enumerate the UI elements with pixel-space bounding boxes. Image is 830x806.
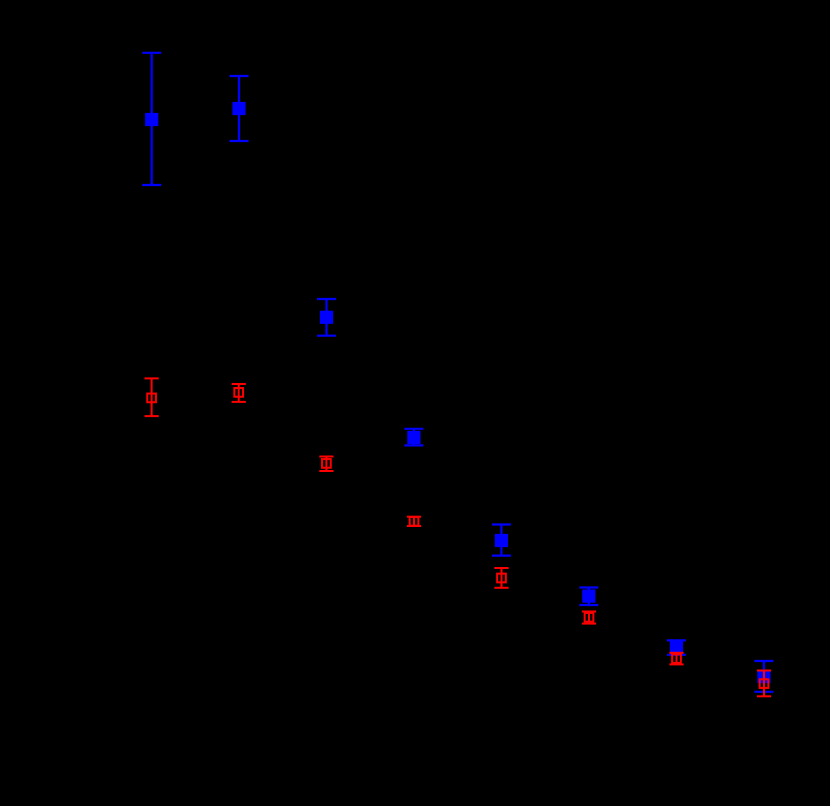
blue series point 6 (filled square marker + error bar) xyxy=(579,588,598,606)
red series point 6 (open square marker + error bar) xyxy=(582,612,596,624)
red series point 7 (open square marker + error bar) xyxy=(669,653,683,665)
blue series point 2 (filled square marker + error bar) xyxy=(230,76,249,141)
red series point 1 (open square marker + error bar) xyxy=(145,378,159,416)
blue series point 7 (filled square marker + error bar) xyxy=(667,640,686,654)
red series point 2 (open square marker + error bar) xyxy=(232,384,246,402)
red series point 5 (open square marker + error bar) xyxy=(494,568,508,588)
blue series point 1 (filled square marker + error bar) xyxy=(142,53,161,185)
red series point 3 (open square marker + error bar) xyxy=(319,457,333,472)
red series point 8 (open square marker + error bar) xyxy=(757,671,771,697)
blue series point 4 (filled square marker + error bar) xyxy=(404,429,423,446)
blue series point 3 (filled square marker + error bar) xyxy=(317,299,336,336)
red series point 4 (open square marker + error bar) xyxy=(407,517,421,526)
blue series point 8 (filled square marker + error bar) xyxy=(754,661,773,692)
blue series point 5 (filled square marker + error bar) xyxy=(492,525,511,556)
